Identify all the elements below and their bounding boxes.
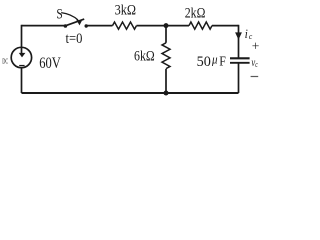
wire 6k branch bottom: [165, 69, 167, 93]
node junction dot bottom of 6k: [164, 91, 169, 96]
switch S right contact dot: [85, 24, 88, 27]
wire capacitor to bottom-right corner: [238, 63, 240, 93]
svg-text:μ: μ: [211, 52, 217, 67]
svg-text:+: +: [252, 39, 260, 54]
wire left vertical bottom segment: [21, 68, 23, 93]
capacitor C bottom plate: [230, 62, 250, 64]
svg-text:t=0: t=0: [66, 30, 83, 46]
switch S closing arc: [61, 13, 78, 20]
switch S blade: [65, 19, 84, 26]
resistor R 6k zigzag: [162, 43, 170, 69]
voltage source V1 circle: [11, 47, 31, 67]
switch S closing arrowhead: [76, 20, 82, 26]
svg-text:vc: vc: [251, 57, 258, 70]
wire top-left horizontal to switch: [22, 25, 66, 27]
svg-text:F: F: [219, 53, 226, 69]
svg-text:S: S: [56, 5, 62, 22]
switch S left contact dot: [64, 24, 68, 28]
wire right branch down to capacitor: [238, 25, 240, 58]
wire 2k to top-right corner: [212, 25, 239, 27]
node junction dot top of 6k: [164, 23, 169, 28]
label minus sign: [251, 76, 259, 77]
resistor R 3k zigzag: [113, 22, 137, 29]
current arrow ic on capacitor branch: [235, 32, 242, 39]
wire 6k branch top: [165, 26, 167, 43]
svg-text:3kΩ: 3kΩ: [115, 2, 136, 18]
wire switch to 3k resistor: [86, 25, 112, 27]
svg-text:6kΩ: 6kΩ: [134, 47, 155, 63]
wire bottom: [22, 92, 239, 94]
resistor R 2k zigzag: [189, 22, 212, 29]
svg-text:2kΩ: 2kΩ: [185, 4, 206, 20]
svg-text:50: 50: [197, 54, 211, 70]
voltage source internal arrow: [19, 53, 26, 58]
svg-text:DC: DC: [2, 59, 8, 66]
voltage source minus bar: [19, 65, 24, 66]
wire left vertical top segment: [21, 25, 23, 53]
svg-text:60V: 60V: [39, 56, 61, 72]
capacitor C top plate: [230, 57, 250, 59]
wire 3k to 2k through node: [137, 25, 190, 27]
